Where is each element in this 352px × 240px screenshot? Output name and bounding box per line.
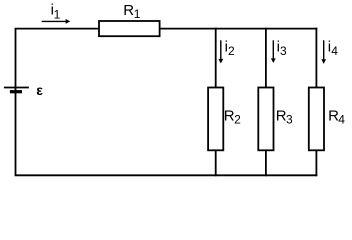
wire branch 2 vertical bottom [265,150,267,176]
wire top horizontal left segment [15,28,99,30]
resistor R3 [258,88,273,151]
svg-text:2: 2 [228,44,235,58]
resistor R1 [99,21,160,36]
resistor R2 [208,88,223,151]
wire branch 1 vertical bottom [215,150,217,176]
label R1 [123,2,141,21]
svg-text:1: 1 [54,7,61,21]
svg-text:3: 3 [280,44,287,58]
wire top horizontal right segment [160,28,318,30]
svg-text:1: 1 [134,7,141,21]
label i1 [51,2,61,22]
svg-text:4: 4 [338,112,345,126]
arrow current i3 [271,40,276,63]
label i4 [328,39,338,58]
svg-text:R: R [123,2,134,19]
svg-text:4: 4 [331,44,338,58]
svg-text:2: 2 [234,112,241,126]
arrow current i4 [321,40,326,64]
wire left vertical [15,29,17,176]
wire branch 2 vertical top [265,28,267,88]
label R4 [328,107,345,126]
svg-text:ε: ε [36,82,43,98]
label R3 [276,107,293,126]
resistor R4 [309,88,324,151]
label i3 [277,39,287,58]
svg-text:3: 3 [286,112,293,126]
arrow current i1 [42,19,71,24]
label i2 [225,39,235,58]
label R2 [224,107,241,126]
wire branch 1 vertical top [215,28,217,88]
arrow current i2 [218,40,223,63]
wire branch 3 vertical bottom [315,150,317,176]
wire bottom horizontal [15,174,318,176]
wire branch 3 vertical top [315,28,317,88]
battery B1 (emf source) [4,88,29,94]
